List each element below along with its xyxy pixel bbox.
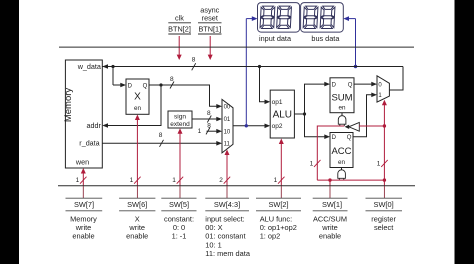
svg-text:SW[1]: SW[1]	[322, 200, 342, 209]
svg-text:en: en	[338, 159, 346, 166]
svg-text:op1: op1	[272, 99, 283, 106]
wire: sign extend to mux input 01	[192, 117, 222, 122]
SW0 width slash 1	[381, 160, 388, 167]
seven-seg display: bus data	[301, 3, 344, 43]
svg-text:8: 8	[207, 123, 211, 130]
svg-text:0: op1+op2: 0: op1+op2	[260, 223, 297, 232]
wire: SUM Q to register mux input 0	[354, 82, 377, 87]
svg-text:D: D	[332, 135, 337, 141]
svg-text:Q: Q	[143, 83, 148, 89]
wire: mux output to ALU op2	[233, 124, 270, 129]
svg-text:1: 1	[198, 128, 202, 135]
svg-text:1: 1	[76, 177, 80, 184]
svg-text:clk: clk	[175, 14, 184, 23]
svg-text:D: D	[332, 83, 337, 89]
svg-text:ALU: ALU	[273, 110, 292, 121]
wire: bus down to X D input	[113, 67, 126, 88]
X register	[126, 79, 149, 114]
svg-text:en: en	[338, 105, 346, 112]
clk label	[168, 14, 191, 34]
X Q width slash 8	[170, 82, 174, 89]
SW2 column	[256, 186, 301, 241]
svg-text:enable: enable	[126, 232, 148, 241]
svg-text:X: X	[134, 92, 141, 103]
red arrow: SW4:3 to input mux select	[225, 150, 230, 187]
svg-text:BTN[1]: BTN[1]	[198, 25, 221, 34]
switch baseline	[58, 185, 415, 187]
svg-text:00: X: 00: X	[205, 223, 222, 232]
wire: X Q to memory addr	[102, 85, 161, 128]
bus wire (w_data line)	[102, 64, 403, 69]
node: bus to ALU op1	[258, 65, 261, 68]
async reset label	[198, 5, 221, 33]
red select net: SW0 to register mux	[382, 100, 387, 186]
wire: ALU out down to ACC D	[305, 114, 331, 139]
wire: mux output to input-data display (navy)	[246, 16, 257, 126]
svg-text:11: 11	[224, 142, 231, 148]
node: ALU output branch	[303, 112, 306, 115]
svg-text:r_data: r_data	[79, 139, 99, 148]
r_data width slash 8	[160, 140, 164, 147]
wire: ALU output	[294, 113, 304, 115]
svg-text:1: -1: 1: -1	[172, 232, 187, 241]
svg-text:enable: enable	[72, 232, 94, 241]
svg-text:1: op2: 1: op2	[260, 232, 281, 241]
red arrow: SW7 to memory wen	[81, 168, 86, 186]
svg-text:8: 8	[170, 76, 174, 83]
SUM enable AND gate	[338, 116, 346, 125]
seven-seg display: input data	[258, 3, 300, 43]
svg-text:Memory: Memory	[70, 214, 97, 223]
memory block	[63, 60, 102, 168]
svg-text:ACC/SUM: ACC/SUM	[313, 214, 347, 223]
svg-text:constant:: constant:	[164, 214, 194, 223]
node: red junction SW1	[328, 178, 331, 181]
right letterbox bar	[455, 0, 474, 264]
svg-text:Q: Q	[347, 135, 352, 141]
svg-text:D: D	[128, 83, 133, 89]
buffer triangle on SUM enable	[345, 125, 350, 129]
svg-text:0: 0: 0: 0	[173, 223, 185, 232]
wire: bus down to ALU op1	[260, 67, 271, 105]
svg-text:SW[2]: SW[2]	[268, 200, 288, 209]
svg-text:w_data: w_data	[77, 62, 101, 71]
svg-text:select: select	[374, 223, 393, 232]
svg-text:extend: extend	[170, 121, 190, 128]
red arrow: SW2 to ALU func	[279, 139, 284, 187]
register select mux (2:1)	[377, 76, 389, 102]
svg-text:1: 1	[310, 161, 314, 168]
SW7 column	[66, 186, 103, 241]
clk distribution line	[59, 46, 414, 48]
svg-text:input select:: input select:	[205, 214, 244, 223]
svg-text:bus data: bus data	[311, 34, 340, 43]
red arrow: SW5 to sign extend	[178, 128, 183, 186]
SW0 column	[366, 186, 403, 232]
reset arrow	[208, 36, 213, 60]
wire: ALU out up to SUM D	[305, 82, 331, 114]
svg-text:write: write	[321, 223, 338, 232]
svg-text:ALU func:: ALU func:	[260, 214, 292, 223]
svg-text:sign: sign	[174, 114, 186, 121]
wire: ACC Q to register mux input 1	[353, 93, 377, 137]
SW5 column	[161, 186, 196, 241]
input select mux (4:1)	[222, 99, 233, 152]
constant width slash 8	[206, 127, 210, 134]
wire: memory r_data to mux input 11	[102, 141, 222, 146]
SW1 width slash 1	[314, 160, 321, 167]
svg-text:register: register	[371, 214, 396, 223]
SW6 column	[119, 186, 155, 241]
svg-text:reset: reset	[202, 14, 218, 23]
svg-text:enable: enable	[319, 232, 341, 241]
node: red junction SW0/triangle	[383, 124, 386, 127]
svg-text:8: 8	[159, 132, 163, 139]
svg-text:8: 8	[192, 57, 196, 64]
ACC register	[330, 133, 353, 168]
SW4:3 column	[205, 186, 251, 258]
ACC en stub	[341, 168, 343, 171]
red arrow: SW6 to X en	[135, 115, 140, 187]
svg-text:1: 1	[172, 177, 176, 184]
ACC enable AND gate	[338, 170, 346, 179]
svg-text:SW[0]: SW[0]	[374, 200, 394, 209]
svg-text:ACC: ACC	[331, 146, 351, 157]
node: bus to X D	[111, 65, 114, 68]
SUM register	[330, 78, 354, 113]
svg-text:en: en	[134, 105, 142, 112]
node: mux output to display (navy)	[245, 124, 248, 127]
svg-text:write: write	[128, 223, 145, 232]
wire: bus to bus-data display (navy)	[343, 16, 357, 68]
svg-text:2: 2	[219, 177, 223, 184]
red enable net: SW1 to SUM en	[317, 126, 384, 186]
svg-text:Q: Q	[348, 83, 353, 89]
svg-text:op2: op2	[272, 123, 283, 130]
SW1 column	[313, 186, 348, 241]
wire: register mux output to bus	[389, 67, 403, 91]
svg-text:10: 10	[224, 130, 231, 136]
svg-text:1: 1	[274, 177, 278, 184]
wire: X Q output to mux input 00	[149, 85, 217, 106]
svg-text:1: 1	[377, 161, 381, 168]
svg-text:SW[6]: SW[6]	[127, 200, 147, 209]
node: X Q to addr branch	[159, 83, 162, 86]
svg-text:BTN[2]: BTN[2]	[168, 25, 191, 34]
svg-text:SUM: SUM	[331, 93, 352, 104]
ALU block	[270, 90, 294, 138]
svg-text:addr: addr	[87, 121, 102, 130]
svg-text:write: write	[75, 223, 92, 232]
sign extend width slash 8	[207, 116, 211, 123]
node: red junction right	[383, 178, 386, 181]
svg-text:input data: input data	[259, 34, 292, 43]
svg-text:SW[7]: SW[7]	[74, 200, 94, 209]
bus width slash 8	[192, 63, 196, 70]
svg-text:11: mem data: 11: mem data	[205, 249, 251, 258]
clk arrow	[177, 36, 182, 60]
svg-text:X: X	[135, 214, 140, 223]
svg-text:SW[5]: SW[5]	[169, 200, 189, 209]
svg-text:Memory: Memory	[63, 88, 74, 123]
sign extend block	[168, 111, 192, 128]
svg-text:00: 00	[224, 105, 231, 111]
svg-text:10: 1: 10: 1	[205, 240, 221, 249]
svg-text:8: 8	[207, 110, 211, 117]
svg-text:wen: wen	[75, 157, 89, 166]
svg-text:01: 01	[224, 117, 231, 123]
left letterbox bar	[0, 0, 19, 264]
svg-text:1: 1	[130, 177, 134, 184]
svg-text:01: constant: 01: constant	[205, 232, 245, 241]
SUM en stub	[341, 113, 343, 116]
svg-text:SW[4:3]: SW[4:3]	[214, 200, 240, 209]
